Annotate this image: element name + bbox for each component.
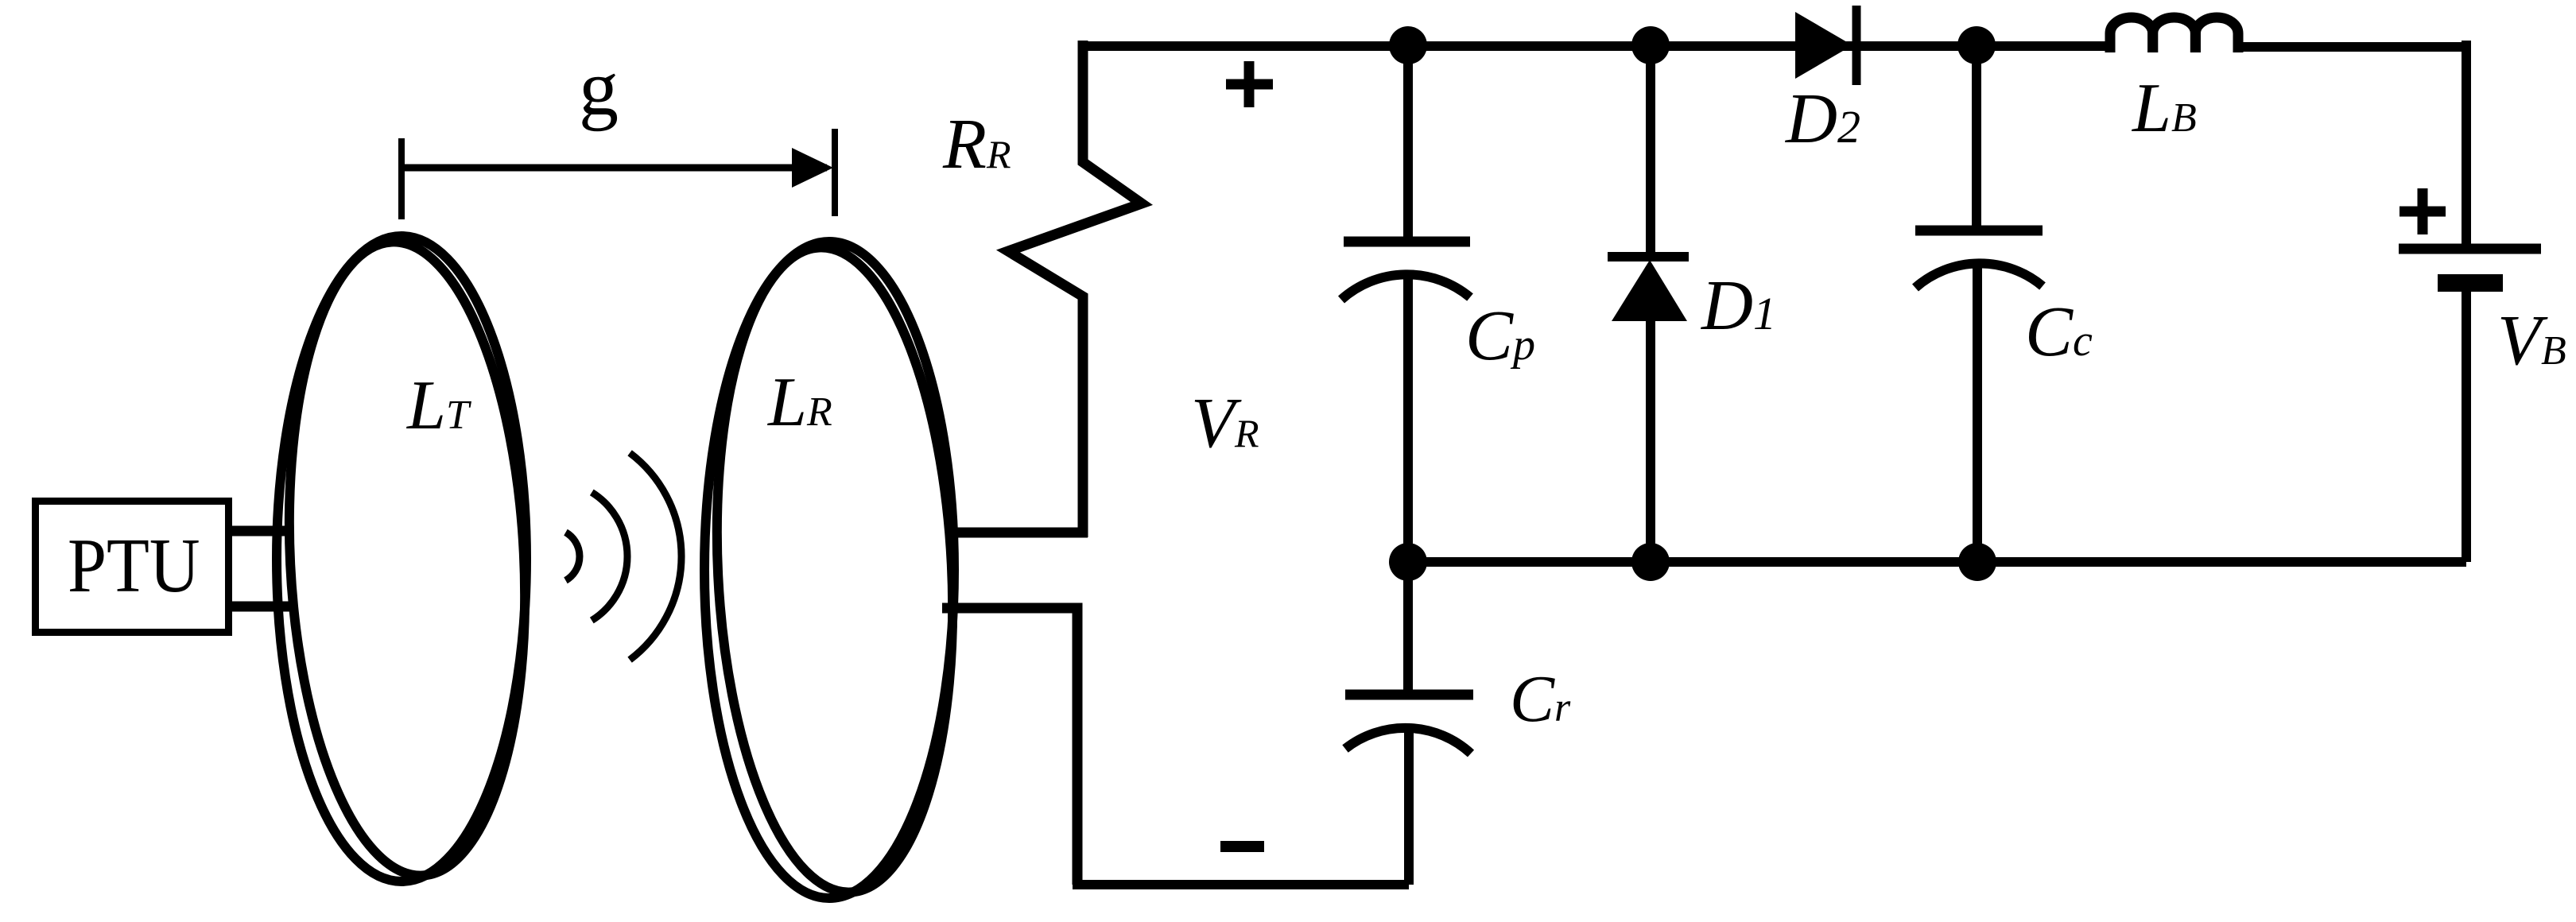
node junction dot bus D1 [1631, 543, 1670, 581]
svg-text:g: g [579, 44, 619, 132]
wire LR upper stub to resistor [946, 528, 1088, 538]
battery VB [2399, 41, 2541, 562]
node junction dot top Cc [1957, 26, 1996, 64]
inductor LR receive coil [702, 242, 967, 898]
plus sign of VR [1226, 61, 1273, 107]
plus sign of VB [2399, 188, 2446, 234]
capacitor Cp [1341, 45, 1470, 562]
minus sign of VR [1220, 841, 1264, 852]
node junction dot bus Cc [1958, 543, 1996, 581]
node junction dot top Cp [1389, 26, 1427, 64]
diode D1 [1608, 45, 1689, 562]
wire top bus left of LB [1078, 41, 2113, 51]
wire top bus right of LB [2236, 42, 2466, 52]
capacitor Cr [1345, 562, 1473, 885]
resistor RR [1008, 41, 1142, 537]
wire middle bus [1408, 557, 2466, 567]
diode D2 [1795, 6, 1856, 85]
wire PTU to coil LT (upper lead) [228, 526, 288, 537]
node junction dot top D1 [1631, 26, 1670, 64]
inductor LT transmit coil [275, 236, 540, 881]
wire LR lower stub [942, 608, 1077, 885]
node junction dot bus Cr [1389, 543, 1427, 581]
dimension line g (gap) [402, 129, 835, 219]
wire PTU to coil LT (lower lead) [228, 602, 289, 612]
capacitor Cc [1915, 45, 2043, 562]
wire bottom return [1073, 880, 1409, 889]
svg-text:PTU: PTU [68, 523, 200, 609]
wireless coupling arcs [566, 453, 682, 660]
PTU box U1 [36, 502, 229, 633]
inductor LB [2110, 17, 2238, 52]
